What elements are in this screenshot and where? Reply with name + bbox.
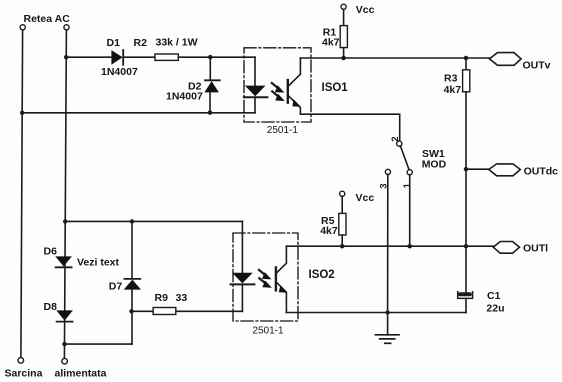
node junction contact1 / OUTl: [407, 244, 412, 249]
diode D2: [204, 80, 219, 92]
terminal Sarcina right: [62, 358, 68, 364]
svg-text:ISO2: ISO2: [309, 269, 335, 281]
svg-text:4k7: 4k7: [322, 37, 340, 49]
LED of ISO1 anode wire: [254, 57, 256, 85]
diode D7: [124, 279, 141, 290]
svg-text:OUTl: OUTl: [523, 242, 548, 254]
svg-text:2501-1: 2501-1: [252, 325, 284, 336]
svg-text:ISO1: ISO1: [322, 82, 349, 94]
resistor R5: [339, 213, 346, 235]
capacitor C1: [458, 292, 473, 299]
svg-text:alimentata: alimentata: [55, 368, 107, 380]
node junction D8 bottom / return line: [62, 342, 66, 346]
resistor R2: [155, 54, 178, 60]
switch SW1 contact 1: [407, 170, 412, 175]
node junction D7 top: [130, 219, 134, 223]
svg-text:MOD: MOD: [422, 158, 447, 170]
svg-text:Vezi text: Vezi text: [77, 256, 120, 268]
wire OUTl line: [286, 245, 493, 247]
svg-text:1N4007: 1N4007: [166, 91, 203, 103]
svg-text:OUTv: OUTv: [523, 60, 551, 72]
svg-text:Vcc: Vcc: [356, 4, 375, 16]
svg-text:Retea AC: Retea AC: [24, 13, 71, 25]
wire left rail: [21, 30, 23, 358]
diode D8: [56, 310, 73, 321]
node junction D7 / R9: [129, 309, 133, 313]
light arrows ISO1: [272, 83, 285, 101]
svg-text:1N4007: 1N4007: [101, 66, 138, 78]
node junction left rail / lower AC line: [20, 111, 24, 115]
wire D2 branch lower: [209, 92, 211, 112]
wire R9 line: [132, 310, 243, 312]
svg-text:Vcc: Vcc: [356, 192, 375, 204]
wire contact 3 to ground rail: [387, 174, 389, 312]
resistor R3: [463, 70, 470, 92]
light arrows ISO2: [259, 270, 272, 288]
wire D7 branch lower: [131, 290, 133, 345]
svg-text:2: 2: [390, 137, 401, 142]
switch SW1 lever: [400, 146, 409, 170]
svg-text:33k / 1W: 33k / 1W: [156, 37, 198, 49]
svg-text:D6: D6: [44, 246, 58, 258]
svg-text:4k7: 4k7: [320, 225, 338, 237]
connector OUTv: [490, 53, 522, 66]
svg-text:22u: 22u: [486, 303, 504, 315]
wire lower link line: [65, 220, 242, 222]
svg-text:1: 1: [402, 182, 413, 188]
optocoupler ISO2 box: [233, 233, 298, 321]
node junction OUTl / rail: [464, 244, 469, 249]
terminal Vcc lower: [340, 191, 345, 196]
wire R5 to OUTl line: [341, 235, 343, 246]
connector OUTl: [493, 242, 519, 254]
node junction rail2 / link line: [63, 219, 67, 223]
node junction D2 bottom: [208, 110, 213, 115]
phototransistor ISO1: [288, 58, 301, 114]
terminal Vcc top: [341, 4, 346, 9]
svg-text:2501-1: 2501-1: [267, 125, 299, 136]
node junction rail2 / D1 line: [64, 55, 69, 60]
optocoupler ISO1 box: [244, 48, 311, 122]
wire right rail mid: [465, 92, 467, 293]
node junction right rail / OUTv: [464, 56, 469, 61]
wire OUTdc stub: [466, 168, 489, 170]
node junction ground: [385, 310, 389, 314]
wire D2 branch upper: [209, 57, 211, 80]
wire Vcc to R5: [341, 196, 343, 213]
wire right rail upper: [465, 58, 467, 70]
svg-text:R3: R3: [444, 72, 458, 84]
LED of ISO2 cathode wire: [241, 284, 243, 311]
wire Vcc to R1: [343, 9, 345, 25]
wire C1 to ground rail: [465, 298, 467, 312]
svg-text:Sarcina: Sarcina: [5, 368, 43, 380]
svg-text:R2: R2: [134, 37, 148, 49]
wire return line to rail2: [65, 343, 133, 345]
resistor R9: [153, 308, 176, 315]
LED of ISO1: [244, 86, 268, 98]
svg-text:D8: D8: [44, 301, 58, 313]
wire second rail: [64, 30, 66, 358]
phototransistor ISO2: [276, 246, 287, 312]
wire ISO1 collector line to OUTv: [300, 57, 489, 59]
svg-text:3: 3: [379, 184, 390, 189]
switch SW1 contact 2: [397, 141, 402, 146]
wire top AC line to D1: [66, 56, 111, 58]
diode D1: [111, 50, 123, 65]
terminal Retea AC right: [64, 25, 69, 30]
terminal Retea AC left: [20, 25, 25, 30]
svg-text:D1: D1: [107, 37, 121, 49]
node junction OUTdc: [464, 167, 469, 172]
diode D6: [55, 256, 72, 267]
wire R1 to collector line: [343, 48, 345, 58]
svg-text:D7: D7: [109, 281, 123, 293]
node junction D2 top: [208, 55, 213, 60]
wire ISO1 emitter line: [300, 114, 399, 141]
wire D1 to R2: [123, 56, 155, 58]
wire bottom ground rail: [286, 312, 466, 314]
svg-text:C1: C1: [487, 290, 501, 302]
ground symbol: [375, 313, 399, 344]
LED of ISO2: [231, 273, 255, 285]
wire R2 to LED1 drop: [178, 56, 255, 58]
wire D7 branch upper: [131, 221, 133, 278]
node junction R1 bottom: [341, 56, 346, 61]
terminal Sarcina left: [18, 358, 24, 364]
svg-text:33: 33: [176, 292, 188, 304]
svg-text:4k7: 4k7: [444, 84, 462, 96]
LED of ISO1 cathode wire: [254, 97, 256, 113]
resistor R1: [340, 26, 347, 48]
svg-text:OUTdc: OUTdc: [524, 165, 559, 177]
node junction R5 / OUTl: [340, 244, 345, 249]
connector OUTdc: [489, 164, 521, 176]
wire contact 1 to OUTl line: [409, 175, 411, 247]
LED of ISO2 anode wire: [241, 221, 243, 272]
switch SW1 contact 3: [385, 169, 390, 174]
wire lower AC line: [22, 112, 255, 114]
svg-text:R9: R9: [155, 292, 169, 304]
